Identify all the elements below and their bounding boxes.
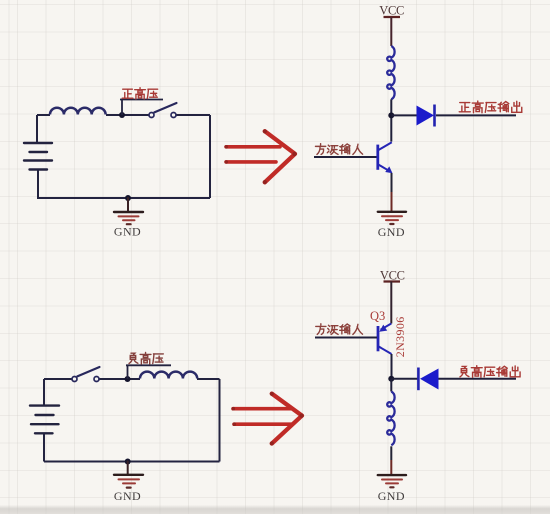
node junction diode tap <box>388 376 394 382</box>
svg-text:GND: GND <box>114 225 141 239</box>
wire VCC stem <box>390 17 392 46</box>
wire VCC stem <box>390 282 392 324</box>
inductor L1 (horizontal coil) <box>50 108 106 115</box>
transistor Q1 NPN <box>378 142 392 171</box>
wire bottom side <box>44 461 220 463</box>
wire coil to collector <box>390 99 392 141</box>
wire right side <box>209 115 211 198</box>
arrow (red double arrow) <box>233 394 302 444</box>
net label stem 负高压 <box>126 365 171 379</box>
net label stem 正高压 <box>120 100 163 116</box>
inductor L4 (vertical coil) <box>387 392 394 446</box>
inductor L3 (horizontal coil) <box>140 372 197 379</box>
ground GND top-right <box>378 212 406 224</box>
diode D1 (pointing right) <box>417 105 435 127</box>
node junction bottom <box>125 195 131 201</box>
node junction label stem <box>125 376 131 382</box>
svg-text:VCC: VCC <box>380 268 405 282</box>
ground GND top-left <box>114 198 143 224</box>
node junction at label stem <box>119 112 125 118</box>
wire emitter to ground <box>391 173 393 192</box>
wire right side <box>219 379 221 462</box>
svg-text:VCC: VCC <box>379 3 404 17</box>
wire diode to output <box>439 378 517 380</box>
wire top-left top side <box>37 114 210 116</box>
wire left lower <box>37 170 39 198</box>
net label 方波输入 (red) <box>315 144 362 155</box>
arrow (red double arrow) <box>226 131 295 182</box>
ground GND bottom-left <box>114 462 143 488</box>
wire top side <box>44 378 220 380</box>
net label 方波输入 (red) <box>316 324 363 335</box>
wire to diode <box>391 114 417 116</box>
wire left upper <box>43 379 45 405</box>
transistor Q3 PNP <box>378 324 392 355</box>
wire collector to junction <box>391 354 393 379</box>
wire left lower <box>43 434 45 462</box>
net label 负高压输出 (red) <box>460 366 520 378</box>
svg-text:GND: GND <box>114 489 141 503</box>
battery BT2 <box>30 406 59 434</box>
svg-text:GND: GND <box>378 489 405 503</box>
diode D2 (pointing left) <box>418 368 438 391</box>
wire base input <box>314 156 377 158</box>
inductor L2 (vertical coil) <box>387 46 394 99</box>
net label 负高压 (red) <box>129 352 163 364</box>
switch S2 <box>72 367 100 382</box>
wire coil to ground <box>390 446 392 460</box>
node junction diode tap <box>388 112 394 118</box>
ground GND bottom-right <box>378 475 406 487</box>
switch S1 <box>149 103 177 118</box>
wire base input <box>315 337 377 339</box>
svg-text:GND: GND <box>378 225 405 239</box>
wire diode to output <box>436 114 516 116</box>
net label 正高压输出 (red) <box>459 101 522 113</box>
net label 正高压 (red) <box>122 88 157 99</box>
wire to diode <box>391 378 418 380</box>
wire left side <box>36 115 38 142</box>
node junction bottom <box>125 459 131 465</box>
svg-text:Q3: Q3 <box>370 309 385 323</box>
svg-text:2N3906: 2N3906 <box>393 316 407 357</box>
wire bottom side <box>37 197 210 199</box>
battery BT1 top-left <box>24 143 52 170</box>
wire junction to coil <box>390 379 392 392</box>
